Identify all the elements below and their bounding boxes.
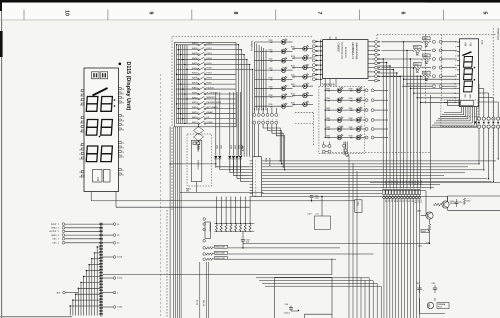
svg-text:RECEIVE MODE: RECEIVE MODE — [207, 102, 222, 104]
svg-text:SW15: SW15 — [192, 112, 199, 114]
svg-text:R210: R210 — [269, 78, 273, 80]
right edge dashed line — [492, 28, 494, 170]
svg-text:9: 9 — [148, 12, 154, 15]
svg-text:13: 13 — [79, 172, 81, 174]
svg-text:R306 100K: R306 100K — [215, 247, 225, 249]
connector TUNER(1) dashed box — [187, 134, 212, 186]
svg-text:330: 330 — [270, 106, 273, 108]
svg-text:3: 3 — [80, 100, 81, 102]
key matrix right bus wires — [238, 45, 240, 157]
svg-text:330: 330 — [292, 77, 295, 79]
svg-text:4: 4 — [80, 104, 81, 106]
LED D213 — [293, 66, 303, 68]
display pin fan wires — [404, 78, 457, 80]
connector circle pair — [432, 49, 435, 52]
svg-text:8: 8 — [80, 131, 81, 133]
LED D203 — [255, 60, 282, 62]
diode bridge D301-D304 — [194, 127, 204, 135]
svg-text:R230: R230 — [326, 127, 330, 129]
svg-text:5: 5 — [117, 292, 118, 294]
module pins — [203, 218, 206, 221]
connector circle pair — [432, 75, 435, 78]
display D-51 bottom pins down — [461, 107, 463, 113]
IC left pin stubs — [321, 41, 323, 43]
svg-text:330: 330 — [327, 100, 330, 102]
svg-text:SW08: SW08 — [192, 78, 199, 80]
svg-text:C307: C307 — [308, 214, 312, 216]
svg-text:SW07: SW07 — [192, 73, 199, 75]
svg-text:8: 8 — [455, 74, 456, 76]
svg-text:TUNER(3)-A: TUNER(3)-A — [497, 28, 500, 40]
svg-text:DNC: DNC — [53, 243, 58, 245]
LED D207 — [255, 96, 282, 98]
svg-text:R035: R035 — [423, 73, 427, 75]
svg-text:MODULE: MODULE — [208, 224, 210, 233]
svg-text:R031: R031 — [423, 38, 427, 40]
svg-text:C313: C313 — [432, 283, 436, 285]
svg-text:330: 330 — [327, 110, 330, 112]
svg-text:SW17: SW17 — [192, 122, 199, 124]
resistor R033 — [382, 58, 422, 60]
LED D208 — [255, 105, 282, 107]
top dashed rail — [377, 34, 497, 36]
array resistor element — [225, 224, 227, 230]
switch SW05 row — [177, 63, 198, 65]
svg-text:11: 11 — [79, 154, 81, 156]
svg-text:D5: D5 — [117, 243, 119, 245]
svg-text:330: 330 — [270, 42, 273, 44]
ruler tick — [23, 10, 25, 20]
svg-text:9: 9 — [455, 79, 456, 81]
dashed frame around connector — [441, 116, 478, 118]
connector wires down to bus — [478, 128, 480, 164]
svg-text:D115 (Display Unit): D115 (Display Unit) — [125, 62, 131, 111]
IC right pins to circles — [368, 41, 375, 43]
svg-text:R220: R220 — [291, 102, 295, 104]
resistor R031 — [382, 41, 422, 43]
display unit D115 outline — [84, 68, 119, 192]
strip rail — [370, 181, 500, 183]
svg-text:FM/AM: FM/AM — [207, 111, 214, 114]
svg-text:7: 7 — [80, 127, 81, 129]
display D-51 digit 1 — [462, 52, 471, 56]
LED D216 — [293, 95, 303, 97]
array resistor element — [249, 224, 251, 230]
svg-text:11: 11 — [122, 170, 124, 172]
svg-text:1: 1 — [58, 224, 59, 226]
svg-text:13: 13 — [454, 98, 456, 100]
svg-text:6: 6 — [400, 12, 406, 15]
connector circle grid — [475, 122, 477, 124]
svg-text:F6/D6: F6/D6 — [207, 68, 212, 70]
svg-text:FL-CH/ST-BY: FL-CH/ST-BY — [207, 92, 219, 94]
crystal X301 box — [355, 200, 362, 213]
diodes D307-D310 with vertical labels — [229, 92, 231, 155]
svg-text:R220: R220 — [291, 56, 295, 58]
second rail from display unit — [115, 192, 117, 208]
switch SW13 row — [177, 103, 198, 105]
resistor R032 — [382, 49, 413, 51]
dashed rail right of circle pairs — [332, 151, 430, 153]
svg-text:F7/D7: F7/D7 — [207, 73, 212, 75]
diode D034 — [416, 70, 419, 73]
switch SW04 row — [177, 59, 198, 61]
key unit dashed border lower — [166, 210, 168, 318]
svg-text:F4/D4: F4/D4 — [207, 58, 212, 60]
svg-text:4.7u(6.3): 4.7u(6.3) — [284, 313, 291, 315]
LED D306 — [325, 137, 337, 139]
svg-text:SW03: SW03 — [192, 53, 199, 55]
svg-text:C312: C312 — [416, 283, 420, 285]
svg-text:R210: R210 — [269, 95, 273, 97]
display digit pair row 3 — [86, 146, 98, 162]
wires diodes to key connector — [215, 159, 217, 167]
bottom center big box — [275, 277, 333, 318]
svg-text:7: 7 — [455, 70, 456, 72]
bottom connector strip cells — [383, 190, 385, 195]
wire grid verticals (IC to connector) — [378, 58, 384, 60]
svg-text:(D-14): (D-14) — [196, 300, 198, 305]
display D-51 digits — [464, 57, 473, 68]
svg-text:8: 8 — [232, 12, 238, 15]
LED D302 — [325, 99, 337, 101]
LED D305 — [325, 128, 337, 130]
svg-text:330: 330 — [270, 61, 273, 63]
LED D217 — [293, 103, 303, 105]
node wire C309 rail — [243, 242, 430, 244]
switch SW03 row — [177, 54, 198, 56]
wire bundle from connector to key strip — [253, 124, 255, 157]
svg-text:330: 330 — [270, 70, 273, 72]
svg-text:2: 2 — [58, 228, 59, 230]
svg-text:15: 15 — [122, 143, 124, 145]
svg-text:R230: R230 — [326, 88, 330, 90]
array resistor element — [216, 224, 218, 230]
svg-text:7 (D6): 7 (D6) — [117, 307, 122, 309]
LED D201 — [255, 41, 282, 43]
svg-text:10: 10 — [79, 149, 81, 151]
label D115 Display Unit — [119, 63, 122, 66]
ruler tick — [107, 10, 109, 20]
transistor Q305 — [442, 201, 449, 208]
resistor R310 — [463, 198, 465, 205]
svg-text:2: 2 — [80, 95, 81, 97]
capacitor C311 — [456, 199, 458, 202]
svg-text:330: 330 — [350, 100, 353, 102]
svg-text:SW14: SW14 — [192, 107, 199, 109]
svg-text:SW04: SW04 — [192, 58, 199, 60]
bottom long wires — [103, 273, 332, 275]
svg-text:R032: R032 — [414, 47, 418, 49]
matrix output circles — [102, 256, 113, 258]
svg-text:D305: D305 — [216, 145, 218, 149]
svg-text:330: 330 — [292, 96, 295, 98]
LED D301 — [325, 89, 337, 91]
svg-text:12: 12 — [255, 193, 257, 195]
svg-text:330: 330 — [350, 129, 353, 131]
key unit dashed bottom — [295, 112, 313, 114]
svg-text:14: 14 — [122, 147, 124, 149]
svg-text:SW01: SW01 — [192, 43, 199, 45]
switch SW01 row — [177, 44, 198, 46]
svg-text:CM5837: CM5837 — [337, 43, 341, 53]
svg-text:17: 17 — [122, 125, 124, 127]
svg-text:F3/D3: F3/D3 — [207, 53, 212, 55]
svg-text:R210: R210 — [269, 40, 273, 42]
display digit pair row 2 — [86, 120, 98, 136]
diode D031 — [425, 44, 428, 47]
svg-text:R033: R033 — [423, 55, 427, 57]
display D115 top indicator block — [92, 72, 100, 79]
svg-text:C309: C309 — [246, 239, 250, 241]
svg-text:11: 11 — [455, 88, 457, 90]
resistor R035 — [382, 75, 422, 77]
svg-text:SW06: SW06 — [192, 68, 199, 70]
svg-text:MEMORY: MEMORY — [207, 97, 216, 99]
diode D035 — [425, 78, 428, 81]
svg-text:X301: X301 — [357, 202, 359, 206]
svg-text:C311: C311 — [459, 202, 463, 204]
switch SW02 row — [177, 49, 198, 51]
bottom center inner box — [305, 314, 332, 318]
tuner3 bottom circle pairs — [322, 145, 325, 148]
left bus to diode rail — [170, 163, 216, 165]
LED array left bus — [254, 42, 256, 111]
svg-text:10: 10 — [255, 187, 257, 189]
capacitor C313 — [434, 285, 436, 288]
switch matrix inner box — [175, 42, 237, 127]
svg-text:13: 13 — [122, 152, 124, 154]
svg-text:SW10: SW10 — [192, 87, 199, 89]
connector circle pair — [432, 66, 435, 69]
LED D212 — [293, 57, 303, 59]
svg-text:R210: R210 — [269, 104, 273, 106]
key connector strip — [253, 157, 262, 197]
ruler tick — [442, 10, 444, 20]
svg-text:AM: AM — [464, 43, 467, 47]
LED D303 — [325, 109, 337, 111]
svg-text:R230: R230 — [326, 118, 330, 120]
svg-text:R309: R309 — [422, 231, 426, 233]
svg-text:INPUT: INPUT — [51, 224, 57, 226]
display D-51 right pins and wires — [478, 83, 480, 85]
svg-text:13: 13 — [255, 196, 257, 198]
ruler band — [2, 3, 500, 20]
svg-text:F9/D9: F9/D9 — [207, 82, 212, 84]
top black border strip — [0, 0, 500, 3]
connector TUNER(1) box — [191, 141, 202, 182]
svg-text:21: 21 — [122, 98, 124, 100]
LED D215 — [293, 85, 303, 87]
switch SW16 row — [177, 118, 198, 120]
svg-text:F2/D2: F2/D2 — [207, 48, 212, 50]
svg-text:6: 6 — [455, 65, 456, 67]
IC bottom stubs — [329, 79, 331, 87]
svg-text:R240: R240 — [349, 136, 353, 138]
svg-text:(GND): (GND) — [51, 228, 57, 230]
svg-text:SW16: SW16 — [192, 117, 199, 119]
svg-text:330: 330 — [292, 58, 295, 60]
svg-text:7: 7 — [316, 12, 322, 15]
svg-text:Q306: Q306 — [417, 211, 421, 213]
svg-text:R230: R230 — [326, 98, 330, 100]
svg-text:1: 1 — [80, 91, 81, 93]
switch SW08 row — [177, 78, 198, 80]
TUNER(3)-B bottom stubs — [343, 142, 345, 145]
svg-text:SW02: SW02 — [192, 48, 199, 50]
svg-text:R230: R230 — [326, 108, 330, 110]
svg-text:11: 11 — [255, 190, 257, 192]
svg-text:R240: R240 — [349, 118, 353, 120]
switch SW07 row — [177, 73, 198, 75]
svg-text:R240: R240 — [349, 98, 353, 100]
svg-text:MUTE: MUTE — [241, 146, 243, 152]
svg-text:SW12: SW12 — [192, 97, 199, 99]
svg-text:F8/D8: F8/D8 — [207, 78, 212, 80]
svg-text:kHz: kHz — [464, 95, 466, 99]
svg-text:23: 23 — [122, 89, 124, 91]
svg-text:330: 330 — [350, 90, 353, 92]
svg-text:R220: R220 — [291, 65, 295, 67]
resistor R306 — [203, 247, 206, 250]
display D115 right pins — [119, 88, 122, 90]
svg-text:330: 330 — [292, 86, 295, 88]
svg-text:OUTPUT: OUTPUT — [49, 231, 57, 233]
svg-text:R307 100K: R307 100K — [215, 253, 225, 255]
svg-text:20: 20 — [122, 102, 124, 104]
array resistor element — [235, 224, 237, 230]
svg-text:19: 19 — [122, 116, 124, 118]
svg-text:12: 12 — [79, 158, 81, 160]
LED D214 — [293, 76, 303, 78]
resistor R034 — [382, 67, 413, 69]
svg-text:R034: R034 — [414, 64, 418, 66]
connector circle pair — [432, 58, 435, 61]
svg-text:D0: D0 — [117, 224, 119, 226]
matrix dot column — [99, 245, 101, 247]
array resistor element — [220, 224, 222, 230]
svg-text:R220: R220 — [291, 75, 295, 77]
module RA301 label box — [205, 222, 210, 239]
resistor R309 — [429, 219, 431, 224]
svg-text:PB(-14): PB(-14) — [202, 300, 204, 307]
svg-text:16: 16 — [122, 129, 124, 131]
svg-text:R210: R210 — [269, 59, 273, 61]
svg-text:R240: R240 — [349, 88, 353, 90]
svg-text:R240: R240 — [349, 127, 353, 129]
module vertical wires — [199, 262, 201, 318]
svg-text:R220: R220 — [291, 84, 295, 86]
svg-text:AUTO/MANʼL: AUTO/MANʼL — [207, 106, 218, 109]
capacitor C312 — [419, 285, 421, 288]
svg-text:KY12: KY12 — [419, 181, 421, 185]
transistor Q306 — [426, 212, 433, 219]
svg-text:R230: R230 — [326, 136, 330, 138]
svg-text:2: 2 — [455, 46, 456, 48]
capacitor C309 — [242, 231, 244, 239]
connector small boxes — [448, 100, 460, 105]
svg-text:10: 10 — [454, 84, 456, 86]
svg-text:R210: R210 — [269, 49, 273, 51]
left vertical bus wires — [169, 127, 171, 318]
svg-text:SW05: SW05 — [192, 63, 199, 65]
svg-text:10: 10 — [64, 10, 70, 16]
long rail from display unit — [91, 200, 355, 202]
LED D205 — [255, 79, 282, 81]
svg-text:MODULE: MODULE — [268, 158, 270, 167]
svg-text:330: 330 — [270, 52, 273, 54]
svg-text:(B)MD4049*M(B): (B)MD4049*M(B) — [355, 43, 357, 60]
switch SW15 row — [177, 113, 198, 115]
svg-text:R220: R220 — [291, 47, 295, 49]
svg-text:KY10: KY10 — [413, 181, 415, 185]
svg-text:DOWN: DOWN — [207, 122, 214, 124]
svg-text:D308: D308 — [237, 145, 239, 149]
diodes D305 D306 with vertical labels — [215, 92, 217, 155]
svg-text:NC20-N223: NC20-N223 — [344, 47, 346, 58]
svg-text:330: 330 — [327, 120, 330, 122]
switch SW10 row — [177, 88, 198, 90]
svg-text:14: 14 — [454, 102, 456, 104]
svg-text:F5/D5: F5/D5 — [207, 63, 212, 65]
key unit dashed border — [172, 37, 313, 211]
svg-text:N20-M223(0-10): N20-M223(0-10) — [341, 43, 343, 59]
svg-text:PM: PM — [96, 177, 100, 181]
svg-text:330: 330 — [327, 138, 330, 140]
svg-text:9: 9 — [80, 145, 81, 147]
LED D211 — [293, 48, 303, 50]
display unit dashed boundary — [160, 74, 162, 318]
ruler tick — [191, 10, 193, 20]
svg-text:FM/AM: FM/AM — [197, 146, 200, 152]
switch SW09 row — [177, 83, 198, 85]
svg-text:TUNER(1): TUNER(1) — [197, 160, 199, 170]
resistor R308 — [203, 258, 206, 261]
connector circle pair — [432, 40, 435, 43]
key matrix left bus wires — [176, 45, 178, 124]
svg-text:R240: R240 — [349, 108, 353, 110]
svg-text:C305: C305 — [315, 196, 319, 198]
svg-text:3: 3 — [455, 51, 456, 53]
svg-text:330: 330 — [292, 68, 295, 70]
ruler tick — [359, 10, 361, 20]
svg-text:4.7u: 4.7u — [316, 214, 319, 216]
svg-text:330: 330 — [327, 90, 330, 92]
svg-text:0.01: 0.01 — [246, 241, 249, 243]
svg-text:TUNER (2): TUNER (2) — [250, 41, 252, 52]
IC U301 HD38991 box — [323, 40, 368, 79]
svg-text:330: 330 — [292, 49, 295, 51]
svg-text:330: 330 — [350, 138, 353, 140]
svg-text:C310: C310 — [418, 246, 422, 248]
svg-text:HD38991A-73: HD38991A-73 — [351, 43, 355, 60]
resistor R307 — [203, 253, 206, 256]
main bus wires — [262, 160, 496, 162]
svg-text:R210: R210 — [269, 86, 273, 88]
svg-text:5: 5 — [481, 12, 487, 15]
LED D304 — [325, 119, 337, 121]
svg-text:330: 330 — [350, 110, 353, 112]
svg-text:18: 18 — [122, 120, 124, 122]
switch SW14 row — [177, 108, 198, 110]
svg-text:330: 330 — [350, 120, 353, 122]
svg-text:5: 5 — [58, 239, 59, 241]
svg-text:330: 330 — [270, 80, 273, 82]
bottom connector circle pairs — [253, 108, 255, 113]
resistor R301 — [197, 144, 199, 150]
diode D033 — [425, 61, 428, 64]
TUNER(3)-B box — [319, 87, 365, 154]
